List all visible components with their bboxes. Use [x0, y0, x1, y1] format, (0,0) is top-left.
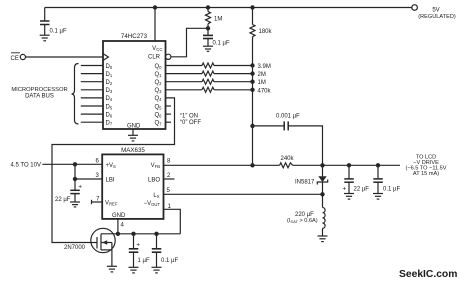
ground (0.1uF output): [373, 194, 383, 200]
diode 1N5817: [295, 165, 328, 194]
svg-text:3.9M: 3.9M: [258, 64, 271, 70]
transistor Q1 2N7000: [64, 228, 115, 266]
svg-text:MAX635: MAX635: [121, 147, 145, 154]
capacitor 0.001uF: [250, 114, 322, 166]
label TO LCD: [405, 155, 446, 178]
svg-text:6: 6: [96, 159, 100, 165]
svg-text:LBI: LBI: [106, 178, 115, 184]
wire Q4 to MOSFET gate: [52, 98, 175, 243]
svg-text:1M: 1M: [214, 17, 222, 23]
capacitor 0.1uF (under 1M): [203, 28, 230, 46]
svg-text:+: +: [136, 241, 140, 248]
svg-text:0.1 µF: 0.1 µF: [213, 40, 230, 46]
ground (2N7000 source): [107, 266, 117, 272]
label 1 ON 0 OFF: [180, 114, 201, 127]
svg-text:CE: CE: [11, 56, 19, 62]
svg-text:D3: D3: [106, 88, 113, 94]
wire pin4 GND: [117, 219, 119, 234]
svg-text:Q4: Q4: [154, 96, 162, 102]
ground (22uF output): [344, 194, 354, 200]
svg-text:VCC: VCC: [152, 46, 162, 52]
watermark SeekIC.com: [399, 269, 457, 280]
svg-text:D0: D0: [106, 64, 113, 70]
ground (1uF): [129, 267, 139, 273]
capacitor 22uF input: [55, 179, 82, 203]
wire bottom rail: [101, 232, 180, 236]
node CE input: [11, 53, 26, 62]
wire D7: [81, 121, 103, 123]
pin VCC wire: [153, 5, 157, 41]
svg-text:Q7: Q7: [154, 121, 162, 127]
svg-text:0.001 µF: 0.001 µF: [276, 114, 300, 120]
resistor 180k (vertical): [250, 5, 273, 165]
svg-text:(REGULATED): (REGULATED): [418, 14, 456, 20]
resistor 3.9M (Q0): [166, 63, 271, 70]
resistor 1M (vertical): [206, 5, 223, 30]
svg-text:0.1 µF: 0.1 µF: [161, 258, 178, 264]
ground (top-left cap): [40, 35, 50, 41]
brace data bus: [72, 64, 79, 125]
wire Q5 stub: [166, 105, 172, 107]
svg-text:Q0: Q0: [154, 64, 162, 70]
label microprocessor data bus: [11, 87, 67, 99]
wire VFB with 240k: [164, 163, 280, 167]
svg-text:Q5: Q5: [154, 104, 162, 110]
svg-text:LX: LX: [153, 193, 159, 199]
svg-text:Q2: Q2: [154, 80, 162, 86]
svg-text:“1” ON: “1” ON: [180, 114, 198, 120]
IC U2 MAX635: [102, 147, 163, 219]
wire LBI: [73, 164, 102, 181]
svg-text:Q1: Q1: [154, 72, 162, 78]
svg-text:180k: 180k: [259, 29, 273, 35]
ground (inductor): [318, 236, 328, 242]
svg-text:4: 4: [121, 223, 125, 229]
svg-text:“0” OFF: “0” OFF: [180, 120, 201, 126]
svg-text:MICROPROCESSOR: MICROPROCESSOR: [11, 87, 67, 93]
wire CE to clock pin: [26, 56, 104, 58]
inductor 220uF: [287, 194, 325, 236]
wire D3: [81, 89, 103, 91]
wire D5: [81, 105, 103, 107]
svg-text:AT 15 mA): AT 15 mA): [413, 171, 439, 177]
svg-text:VREF: VREF: [105, 201, 118, 207]
svg-text:SeekIC.com: SeekIC.com: [399, 269, 457, 280]
svg-text:470k: 470k: [258, 88, 272, 94]
wire D2: [81, 81, 103, 83]
svg-text:D1: D1: [106, 72, 113, 78]
svg-text:5V: 5V: [432, 8, 439, 14]
wire Lx: [164, 192, 325, 196]
wire input to +Vs: [42, 162, 102, 166]
svg-text:D7: D7: [106, 121, 113, 127]
capacitor 0.1uF top-left: [40, 8, 67, 36]
IC U1 74HC273: [103, 33, 166, 130]
MAX635 pin texts: [105, 163, 160, 219]
node 4.5 to 10V input: [11, 162, 41, 168]
wire Q6 stub: [166, 113, 172, 115]
pin numbers MAX635: [96, 159, 172, 229]
svg-text:4.5 TO 10V: 4.5 TO 10V: [11, 162, 41, 168]
svg-text:+: +: [78, 183, 82, 190]
wire output rail: [320, 163, 400, 167]
svg-text:D5: D5: [106, 104, 113, 110]
svg-text:0.1 µF: 0.1 µF: [50, 29, 67, 35]
node 5V regulated terminal: [412, 5, 456, 20]
resistor 1M (Q2): [166, 79, 266, 86]
svg-text:1 µF: 1 µF: [138, 258, 150, 264]
svg-text:240k: 240k: [281, 156, 295, 162]
svg-text:2M: 2M: [258, 72, 266, 78]
pin 7 VREF stub: [92, 200, 103, 204]
wire D0: [81, 65, 103, 67]
svg-text:+: +: [343, 186, 347, 193]
wire pin1 -VOUT to bottom rail: [164, 209, 181, 234]
svg-text:D6: D6: [106, 112, 113, 118]
ground (22uF input): [70, 202, 80, 207]
wire Q7 stub: [166, 121, 172, 123]
svg-text:LBO: LBO: [148, 178, 160, 184]
svg-text:GND: GND: [127, 124, 141, 130]
svg-text:8: 8: [167, 159, 171, 165]
svg-text:VFB: VFB: [151, 163, 161, 169]
svg-text:2: 2: [167, 173, 171, 179]
ground (0.1uF bottom): [152, 267, 162, 273]
pin labels Q0-Q7: [154, 64, 162, 127]
svg-text:22 µF: 22 µF: [354, 187, 370, 193]
wire 5V top rail: [45, 7, 412, 9]
svg-text:IN5817: IN5817: [295, 179, 315, 185]
resistor 240k: [280, 156, 323, 168]
svg-text:Q3: Q3: [154, 88, 162, 94]
svg-text:DATA BUS: DATA BUS: [25, 93, 54, 99]
ground (0.1uF under 1M): [203, 46, 213, 51]
svg-text:D4: D4: [106, 96, 113, 102]
wire CLR to 1M junction: [171, 28, 208, 57]
svg-text:74HC273: 74HC273: [121, 33, 148, 40]
capacitor 1uF: [129, 234, 150, 267]
svg-text:1M: 1M: [258, 80, 266, 86]
svg-text:5: 5: [167, 188, 171, 194]
svg-text:+VS: +VS: [106, 163, 117, 169]
svg-text:2N7000: 2N7000: [64, 245, 86, 251]
svg-text:CLR: CLR: [148, 55, 161, 61]
wire D6: [81, 113, 103, 115]
pin labels D0-D7: [106, 64, 113, 127]
svg-text:22 µF: 22 µF: [55, 197, 71, 203]
capacitor 22uF output: [343, 165, 370, 193]
svg-text:220 µF: 220 µF: [295, 212, 314, 218]
resistor 470k (Q3): [166, 87, 272, 94]
svg-text:D2: D2: [106, 80, 113, 86]
resistor 2M (Q1): [166, 71, 266, 78]
svg-text:−VOUT: −VOUT: [144, 201, 161, 207]
ground (74HC273 GND pin): [128, 129, 138, 141]
wire D4: [81, 97, 103, 99]
clock triangle: [103, 54, 108, 61]
wire D1: [81, 73, 103, 75]
svg-text:0.1 µF: 0.1 µF: [383, 187, 400, 193]
svg-text:Q6: Q6: [154, 112, 162, 118]
capacitor 0.1uF output: [373, 165, 400, 193]
pin CLR bubble: [166, 54, 171, 59]
svg-text:(ISAT > 0.6A): (ISAT > 0.6A): [287, 218, 318, 224]
svg-text:3: 3: [96, 173, 100, 179]
capacitor 0.1uF bottom: [152, 234, 179, 267]
pin LBO stub: [164, 178, 175, 180]
svg-text:GND: GND: [112, 213, 126, 219]
